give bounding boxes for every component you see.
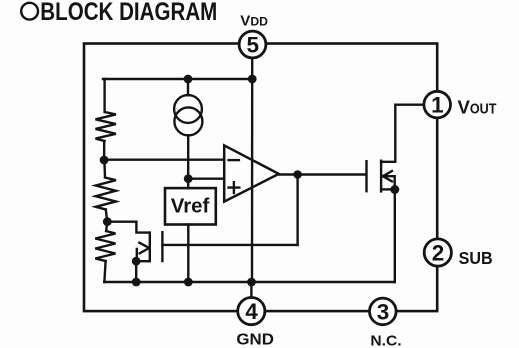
transistor Q1 body arrowhead: [139, 243, 149, 254]
Vref box: [165, 188, 216, 224]
wire: Vref bottom stem: [187, 225, 189, 283]
resistor R3: [95, 231, 115, 261]
pin 1 circle: [424, 91, 451, 118]
pin 5 circle: [239, 31, 266, 58]
wire: pin4 stem: [250, 282, 252, 298]
op-amp U1 triangle: [224, 145, 279, 201]
wire: Vref top stem: [187, 179, 189, 189]
wire: R3 to bottom bus: [104, 261, 105, 282]
junction dot rail/bias line: [248, 75, 257, 84]
wire: current source bottom lead: [187, 135, 189, 178]
wire: Q1 source to bus: [135, 261, 137, 282]
transistor Q2 body arrowhead: [383, 171, 392, 181]
wire: Q2 source down to bus corner: [394, 190, 396, 283]
wire: node A to R2: [103, 160, 106, 177]
transistor Q1 channel bar: [149, 233, 151, 262]
current source I1 lower circle: [174, 107, 202, 135]
wire: inner VDD rail: [103, 78, 252, 80]
transistor Q1 source bottom wire: [136, 260, 150, 262]
wire: R2 to node B: [106, 210, 107, 222]
junction dot rail/current source: [184, 75, 193, 84]
transistor Q1 drain wire: [107, 222, 150, 233]
junction dot bus/pin4: [247, 278, 256, 287]
op-amp plus sign: [229, 182, 240, 193]
svg-text:2: 2: [432, 241, 445, 266]
svg-text:Vref: Vref: [171, 194, 210, 217]
wire: node B to R3: [106, 222, 107, 231]
svg-text:GND: GND: [236, 331, 274, 348]
output node junction dot: [293, 170, 302, 179]
wire: pin5 stem and bias line down through op-amp to bottom bus: [251, 58, 254, 282]
transistor Q1 body arrow lead: [136, 249, 138, 261]
transistor Q2 channel bottom wire: [381, 188, 390, 190]
junction dot bus/Vref: [184, 278, 193, 287]
transistor Q2 drain wire: [381, 105, 424, 162]
node C junction dot (+ input / Vref): [184, 174, 193, 183]
transistor Q1 gate bar: [161, 232, 163, 261]
transistor Q2 source junction dot: [390, 185, 399, 194]
svg-text:VOUT: VOUT: [458, 96, 498, 117]
current source I1 upper circle: [174, 95, 202, 123]
pin 3 circle: [370, 298, 397, 325]
svg-text:BLOCK DIAGRAM: BLOCK DIAGRAM: [40, 0, 217, 26]
wire: inverting input line: [104, 158, 224, 160]
svg-text:SUB: SUB: [459, 248, 493, 268]
node B junction dot: [103, 217, 112, 226]
transistor Q1 source junction dot: [132, 257, 141, 266]
transistor Q2 gate bar: [365, 161, 367, 191]
wire: R1 to node A: [103, 141, 105, 160]
outer boundary rectangle: [84, 44, 437, 312]
svg-text:5: 5: [246, 33, 259, 58]
svg-text:N.C.: N.C.: [370, 333, 401, 348]
wire: feedback vertical: [296, 175, 298, 245]
wire: bottom bus: [104, 281, 395, 283]
wire: non-inverting input line: [188, 177, 224, 179]
transistor Q2 channel bar: [380, 161, 382, 192]
wire: current source top lead: [187, 79, 189, 95]
pin 2 circle: [424, 239, 451, 266]
wire: feedback horizontal to Q1 gate: [162, 244, 297, 246]
wire: left rail top lead: [103, 79, 105, 112]
wire: op-amp output to gate of Q2: [279, 173, 365, 175]
resistor R1: [96, 112, 116, 141]
svg-text:VDD: VDD: [240, 13, 268, 30]
transistor Q2 body arrow lead: [385, 176, 395, 189]
resistor R2: [96, 178, 116, 210]
svg-text:3: 3: [377, 299, 390, 324]
pin 4 circle: [238, 298, 265, 325]
node A junction dot: [100, 156, 109, 165]
svg-text:1: 1: [431, 93, 444, 118]
svg-text:4: 4: [245, 299, 258, 324]
title bullet circle: [21, 3, 38, 20]
op-amp minus sign: [229, 159, 239, 161]
junction dot bus/Q1: [132, 278, 141, 287]
